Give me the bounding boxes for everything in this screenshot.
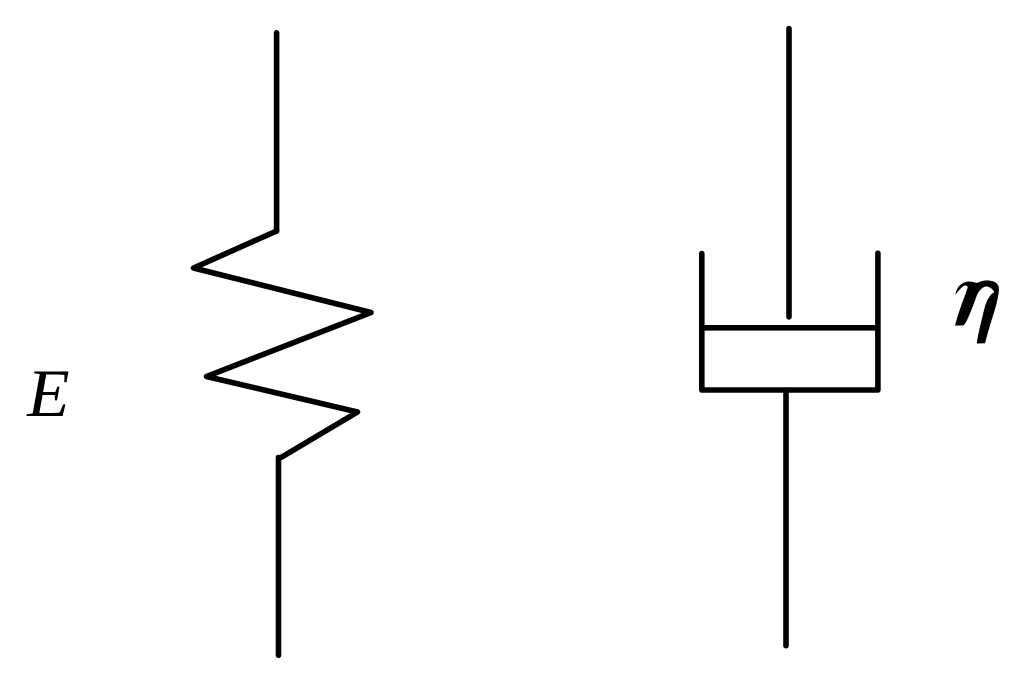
dashpot eta (top piston rod wire) xyxy=(786,29,792,317)
label eta (dashpot viscosity) xyxy=(955,280,999,343)
dashpot eta (piston plate) xyxy=(701,325,877,331)
dashpot eta (cylinder cup) xyxy=(702,253,878,390)
dashpot eta (bottom lead wire) xyxy=(783,390,789,646)
svg-text:E: E xyxy=(26,356,69,431)
spring element E (zigzag coil) xyxy=(194,231,372,458)
spring element E (bottom lead wire) xyxy=(276,457,282,655)
spring element E (top lead wire) xyxy=(274,33,280,231)
